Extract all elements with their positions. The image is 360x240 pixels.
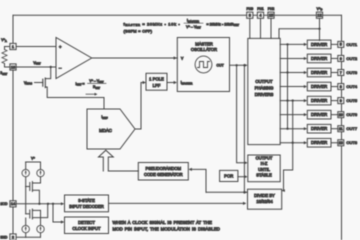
svg-text:MOD PIN INPUT, THE MODULATION: MOD PIN INPUT, THE MODULATION IS DISABLE… [113,226,221,231]
svg-text:5: 5 [340,43,342,47]
svg-text:7: 7 [340,71,342,75]
svg-text:6: 6 [340,57,342,61]
svg-text:DETECT: DETECT [78,220,95,225]
svg-text:OUT7: OUT7 [346,126,357,131]
svg-text:16/32/64: 16/32/64 [256,199,273,204]
svg-text:DRIVER: DRIVER [311,42,327,47]
svg-text:fMASTER = 20MHz • 10k •: fMASTER = 20MHz • 10k • [124,21,181,27]
svg-text:CODE GENERATOR: CODE GENERATOR [144,172,183,177]
svg-text:OSCILLATOR: OSCILLATOR [191,47,217,52]
svg-text:–: – [59,66,62,71]
svg-text:H-Z: H-Z [261,161,268,166]
svg-text:1: 1 [12,44,14,49]
svg-text:INPUT DECODER: INPUT DECODER [69,204,104,209]
svg-text:15: 15 [269,13,273,18]
svg-text:DRIVER: DRIVER [311,140,327,145]
svg-text:3: 3 [249,13,251,18]
svg-text:DRIVER: DRIVER [311,84,327,89]
svg-text:(SSFM = OFF): (SSFM = OFF) [124,29,153,33]
svg-text:WHEN A CLOCK SIGNAL IS PRESENT: WHEN A CLOCK SIGNAL IS PRESENT AT THE [113,220,213,225]
svg-text:PH1: PH1 [257,7,264,11]
svg-text:UNTIL: UNTIL [258,167,271,172]
svg-text:16: 16 [11,64,15,69]
svg-text:2: 2 [12,234,14,239]
svg-text:DRIVER: DRIVER [311,70,327,75]
svg-text:OUT1: OUT1 [346,42,357,47]
svg-text:DRIVER: DRIVER [311,112,327,117]
svg-text:OUT: OUT [217,63,224,67]
svg-text:STABLE: STABLE [256,172,272,177]
svg-text:OUTPUT: OUTPUT [255,79,273,84]
svg-text:11: 11 [339,127,343,131]
svg-text:OUTPUT: OUTPUT [256,156,273,161]
svg-text:LPF: LPF [153,83,161,88]
svg-text:3-STATE: 3-STATE [78,198,95,203]
svg-text:DIVIDE BY: DIVIDE BY [254,193,275,198]
svg-text:PSEUDORANDOM: PSEUDORANDOM [146,166,182,171]
svg-text:PH2: PH2 [268,7,275,11]
svg-text:PHASING: PHASING [255,85,274,90]
svg-text:MDAC: MDAC [99,128,112,133]
svg-text:+: + [59,45,62,50]
svg-text:MOD: MOD [0,202,8,206]
svg-text:MASTER: MASTER [195,42,212,47]
svg-text:DRIVER: DRIVER [311,126,327,131]
svg-text:8: 8 [340,85,342,89]
svg-text:DRIVERS: DRIVERS [255,92,274,97]
svg-text:V+D: V+D [317,7,323,12]
svg-text:V+A: V+A [1,38,7,43]
svg-text:12: 12 [317,13,321,18]
svg-text:OUT2: OUT2 [346,56,357,61]
svg-text:PH0: PH0 [246,7,253,11]
svg-text:10: 10 [339,113,343,117]
svg-text:9: 9 [340,99,342,103]
svg-text:OUT5: OUT5 [346,98,357,103]
svg-text:DRIVER: DRIVER [311,56,327,61]
svg-text:1 POLE: 1 POLE [149,77,164,82]
svg-text:POR: POR [224,174,233,179]
svg-text:OUT4: OUT4 [346,84,357,89]
svg-text:GND: GND [0,236,8,240]
svg-text:OUT8: OUT8 [346,140,357,145]
svg-text:13: 13 [339,141,343,145]
svg-text:OUT6: OUT6 [346,112,357,117]
svg-text:OUT3: OUT3 [346,70,357,75]
svg-text:DRIVER: DRIVER [311,98,327,103]
svg-text:CLOCK INPUT: CLOCK INPUT [72,226,101,231]
